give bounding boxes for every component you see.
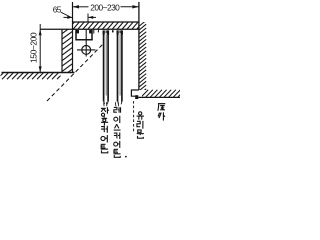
svg-text:150~200: 150~200 — [29, 32, 39, 63]
svg-text:65: 65 — [53, 6, 62, 15]
svg-text:200~230: 200~230 — [90, 3, 120, 13]
